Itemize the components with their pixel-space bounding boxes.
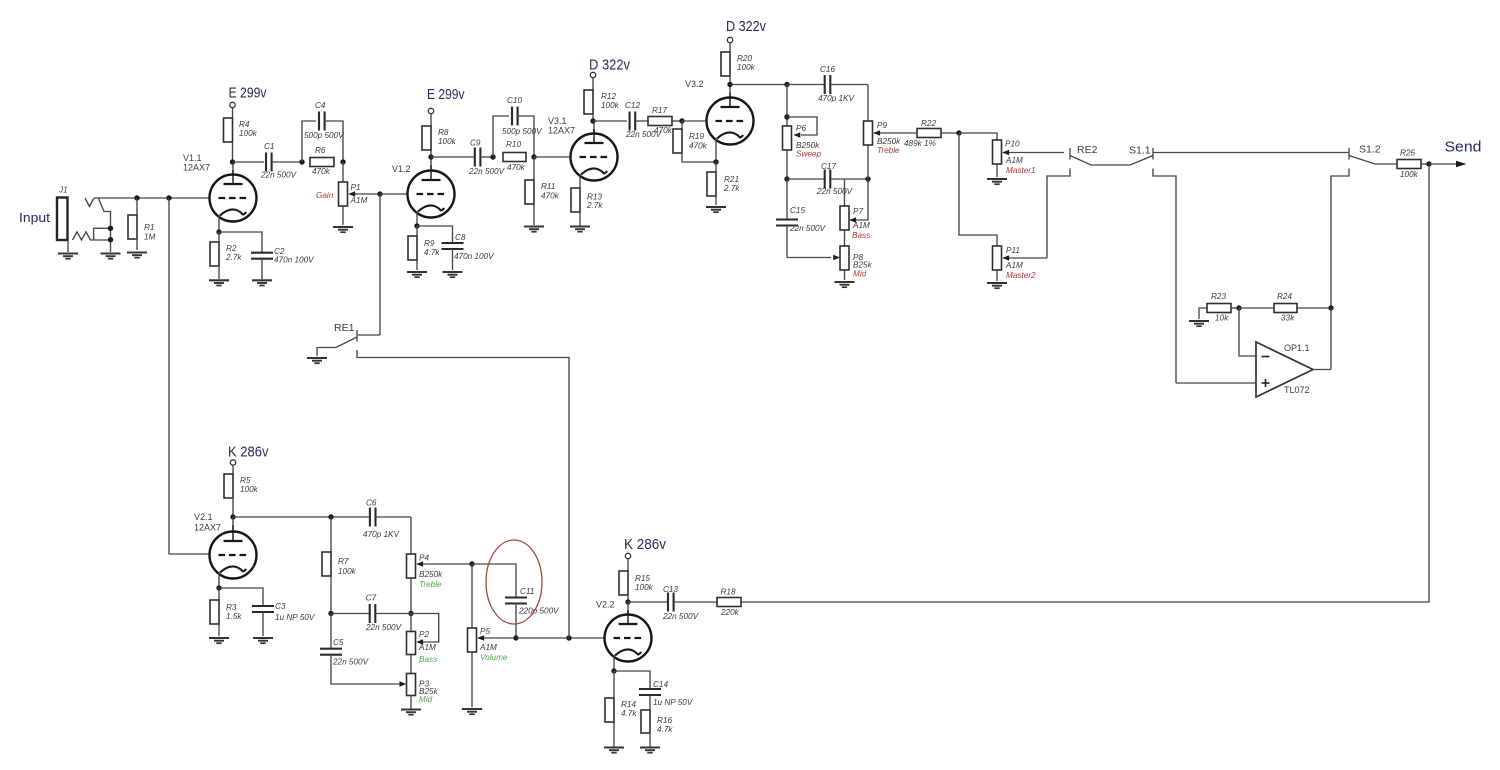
junction (to clean channel) bbox=[166, 195, 171, 200]
svg-text:2.7k: 2.7k bbox=[586, 201, 603, 210]
svg-text:22n 500V: 22n 500V bbox=[468, 167, 506, 176]
potentiometer P7 (Bass) bbox=[840, 179, 870, 246]
potentiometer P8 (Mid) bbox=[787, 246, 873, 280]
wire bbox=[959, 133, 997, 140]
svg-text:P11: P11 bbox=[1006, 246, 1020, 255]
svg-text:100k: 100k bbox=[438, 137, 457, 146]
junction (V1.2 cathode) bbox=[414, 223, 419, 228]
resistor R6 bbox=[310, 146, 334, 176]
ground (C8) bbox=[443, 272, 463, 277]
resistor R21 bbox=[707, 162, 740, 205]
svg-text:P9: P9 bbox=[877, 121, 887, 130]
terminal K 286v bbox=[228, 444, 269, 475]
potentiometer P6 (Sweep) bbox=[783, 85, 822, 180]
ground (R2) bbox=[209, 280, 229, 285]
svg-text:R20: R20 bbox=[737, 54, 752, 63]
resistor R18 bbox=[717, 588, 741, 618]
svg-text:C10: C10 bbox=[507, 96, 522, 105]
ground (jack switch) bbox=[101, 254, 121, 259]
svg-text:R7: R7 bbox=[338, 557, 349, 566]
svg-text:33k: 33k bbox=[1281, 314, 1295, 323]
ground (R16) bbox=[640, 748, 660, 753]
svg-text:A1M: A1M bbox=[852, 221, 870, 230]
svg-text:P5: P5 bbox=[480, 627, 490, 636]
svg-text:100k: 100k bbox=[240, 485, 259, 494]
svg-text:P6: P6 bbox=[796, 124, 806, 133]
terminal D 322v (2) bbox=[726, 18, 766, 52]
svg-text:B25k: B25k bbox=[853, 261, 873, 270]
svg-text:E 299v: E 299v bbox=[229, 85, 267, 102]
node label Input bbox=[19, 210, 50, 225]
wire (to V2.2 grid) bbox=[516, 637, 604, 639]
junction (V2.2 cathode) bbox=[611, 668, 616, 673]
junction (R10 out) bbox=[531, 154, 536, 159]
potentiometer P3 (Mid) bbox=[407, 674, 439, 710]
svg-text:100k: 100k bbox=[635, 583, 654, 592]
junction (C1/R6/C4) bbox=[299, 159, 304, 164]
potentiometer P2 (Bass) bbox=[407, 614, 438, 674]
svg-text:A1M: A1M bbox=[418, 643, 436, 652]
svg-text:RE1: RE1 bbox=[334, 322, 355, 334]
svg-text:C15: C15 bbox=[790, 206, 805, 215]
svg-text:C4: C4 bbox=[315, 101, 326, 110]
svg-text:4.7k: 4.7k bbox=[424, 248, 440, 257]
svg-text:1.5k: 1.5k bbox=[226, 612, 242, 621]
svg-text:22n 500V: 22n 500V bbox=[789, 224, 827, 233]
svg-text:C8: C8 bbox=[455, 233, 466, 242]
capacitor C2 bbox=[219, 232, 315, 279]
wire (to RE1) bbox=[379, 194, 381, 335]
svg-text:R21: R21 bbox=[724, 175, 739, 184]
svg-text:C6: C6 bbox=[366, 499, 377, 508]
svg-text:1u NP 50V: 1u NP 50V bbox=[653, 698, 694, 707]
svg-text:Volume: Volume bbox=[480, 653, 508, 662]
svg-text:12AX7: 12AX7 bbox=[194, 523, 221, 533]
svg-text:C12: C12 bbox=[625, 101, 640, 110]
capacitor C7 bbox=[331, 594, 411, 633]
resistor R19 bbox=[673, 121, 716, 162]
svg-text:4.7k: 4.7k bbox=[621, 709, 637, 718]
junction (Send node) bbox=[1426, 161, 1431, 166]
svg-text:R11: R11 bbox=[541, 182, 555, 191]
svg-text:C14: C14 bbox=[653, 680, 668, 689]
capacitor C13 bbox=[628, 585, 717, 621]
svg-text:1u NP 50V: 1u NP 50V bbox=[275, 613, 316, 622]
svg-text:C9: C9 bbox=[470, 139, 481, 148]
capacitor C3 bbox=[219, 588, 316, 636]
svg-text:470k: 470k bbox=[689, 142, 708, 151]
junction (V1.2 plate) bbox=[428, 154, 433, 159]
svg-text:E 299v: E 299v bbox=[427, 86, 465, 103]
switch S1.2 bbox=[1349, 144, 1397, 165]
junction (C16/P6) bbox=[784, 82, 789, 87]
svg-text:C13: C13 bbox=[663, 585, 678, 594]
resistor R22 bbox=[904, 119, 959, 148]
junction (C17/P9/P7) bbox=[865, 176, 870, 181]
ground (R13) bbox=[570, 227, 590, 232]
terminal D 322v bbox=[589, 57, 630, 91]
svg-text:100k: 100k bbox=[338, 567, 357, 576]
junction (R1 tap) bbox=[134, 195, 139, 200]
resistor R5 bbox=[224, 474, 259, 517]
wire bbox=[233, 161, 265, 163]
svg-text:Bass: Bass bbox=[852, 231, 870, 240]
tube V3.1 (12AX7) bbox=[548, 116, 618, 181]
svg-text:4.7k: 4.7k bbox=[657, 725, 673, 734]
switch S1.1 bbox=[1129, 145, 1349, 160]
svg-text:V1.1: V1.1 bbox=[183, 153, 202, 163]
svg-text:10k: 10k bbox=[1215, 314, 1229, 323]
svg-text:R23: R23 bbox=[1211, 292, 1226, 301]
svg-text:22n 500V: 22n 500V bbox=[332, 658, 370, 667]
junction (V1.1 cathode) bbox=[216, 229, 221, 234]
junction (V1.1 plate) bbox=[230, 159, 235, 164]
svg-text:100k: 100k bbox=[737, 63, 756, 72]
svg-text:Treble: Treble bbox=[419, 580, 442, 589]
svg-text:K 286v: K 286v bbox=[624, 536, 666, 553]
svg-text:R6: R6 bbox=[315, 146, 326, 155]
output Send bbox=[1429, 139, 1482, 168]
junction (P4/C7/P2) bbox=[408, 611, 413, 616]
resistor R4 bbox=[224, 118, 258, 162]
capacitor C11 bbox=[472, 564, 560, 638]
svg-text:C11: C11 bbox=[520, 587, 534, 596]
resistor R11 bbox=[525, 157, 560, 225]
resistor R8 bbox=[422, 126, 457, 157]
svg-text:22n 500V: 22n 500V bbox=[816, 187, 854, 196]
svg-text:R2: R2 bbox=[226, 244, 237, 253]
capacitor C5 bbox=[320, 614, 406, 687]
svg-text:D 322v: D 322v bbox=[726, 18, 766, 35]
svg-text:K 286v: K 286v bbox=[228, 444, 269, 461]
resistor R24 bbox=[1239, 292, 1331, 323]
junction (V3.1 plate) bbox=[590, 118, 595, 123]
svg-text:C17: C17 bbox=[821, 162, 836, 171]
relay contact RE1 bbox=[317, 322, 380, 356]
wire (P2 wiper) bbox=[411, 614, 439, 645]
resistor R25 bbox=[1397, 149, 1429, 180]
svg-text:R24: R24 bbox=[1277, 292, 1292, 301]
svg-text:470n 100V: 470n 100V bbox=[454, 252, 495, 261]
svg-text:R3: R3 bbox=[226, 603, 237, 612]
svg-text:Gain: Gain bbox=[316, 191, 334, 200]
svg-text:470k: 470k bbox=[312, 167, 331, 176]
svg-text:P10: P10 bbox=[1005, 140, 1020, 149]
svg-text:22n 500V: 22n 500V bbox=[260, 171, 298, 180]
ground (P11) bbox=[987, 283, 1007, 288]
resistor R9 bbox=[408, 226, 440, 270]
junction (V2.1 cathode) bbox=[216, 585, 221, 590]
svg-text:Treble: Treble bbox=[877, 146, 900, 155]
ground (P5) bbox=[462, 709, 482, 714]
wire (plate rail) bbox=[730, 84, 787, 86]
svg-text:C16: C16 bbox=[820, 65, 835, 74]
svg-text:470n 100V: 470n 100V bbox=[274, 256, 315, 265]
svg-text:A1M: A1M bbox=[1005, 261, 1023, 270]
capacitor C10 bbox=[493, 96, 543, 157]
resistor R20 bbox=[721, 52, 756, 85]
svg-text:500p 500V: 500p 500V bbox=[502, 127, 543, 136]
capacitor C6 bbox=[363, 499, 411, 540]
svg-text:S1.1: S1.1 bbox=[1129, 145, 1151, 157]
svg-text:Send: Send bbox=[1445, 139, 1482, 156]
ground (P8) bbox=[835, 282, 855, 287]
svg-text:Bass: Bass bbox=[419, 655, 437, 664]
junction (R22 out) bbox=[956, 130, 961, 135]
wire (to V3.2 grid) bbox=[682, 120, 706, 122]
potentiometer P11 (Master2) bbox=[993, 246, 1048, 281]
junction (C11/P5 wiper) bbox=[513, 635, 518, 640]
tube V1.2 (12AX7) bbox=[392, 157, 455, 226]
resistor R17 bbox=[648, 106, 682, 135]
svg-text:A1M: A1M bbox=[479, 643, 497, 652]
junction (feedback node) bbox=[1328, 305, 1333, 310]
potentiometer P5 (Volume) bbox=[468, 564, 517, 707]
wire (R18 to Send) bbox=[741, 167, 1429, 602]
junction (inverting node) bbox=[1236, 305, 1241, 310]
ground (R21) bbox=[706, 207, 726, 212]
ground (P1) bbox=[333, 227, 353, 232]
ground (R9) bbox=[407, 272, 427, 277]
svg-text:R9: R9 bbox=[424, 239, 435, 248]
svg-text:S1.2: S1.2 bbox=[1359, 144, 1381, 156]
svg-text:R14: R14 bbox=[621, 700, 636, 709]
svg-text:2.7k: 2.7k bbox=[723, 184, 740, 193]
resistor R1 bbox=[128, 198, 156, 250]
svg-text:470k: 470k bbox=[541, 192, 560, 201]
capacitor C4 bbox=[302, 101, 345, 162]
capacitor C9 bbox=[468, 139, 506, 177]
capacitor C1 bbox=[260, 142, 302, 180]
node (jack switch contacts) bbox=[108, 226, 113, 243]
svg-text:C3: C3 bbox=[275, 602, 286, 611]
junction (P1 wiper node) bbox=[377, 191, 382, 196]
capacitor C12 bbox=[625, 101, 663, 139]
svg-text:B250k: B250k bbox=[419, 570, 443, 579]
svg-text:470p 1KV: 470p 1KV bbox=[818, 94, 856, 103]
svg-text:P4: P4 bbox=[419, 554, 429, 563]
ground (R23) bbox=[1189, 321, 1209, 326]
wire (P11 wiper to RE2 throw) bbox=[1047, 169, 1070, 259]
svg-text:100k: 100k bbox=[239, 129, 258, 138]
resistor R14 bbox=[605, 671, 637, 747]
resistor R3 bbox=[210, 588, 242, 636]
ground (R14) bbox=[604, 748, 624, 753]
resistor R10 bbox=[503, 140, 526, 172]
svg-text:C5: C5 bbox=[333, 638, 344, 647]
resistor R12 bbox=[584, 90, 620, 121]
potentiometer P10 (Master1) bbox=[993, 140, 1065, 178]
svg-text:R19: R19 bbox=[689, 132, 704, 141]
junction (P4 wiper node) bbox=[469, 561, 474, 566]
wire (input bus) bbox=[94, 197, 210, 199]
wire (to V2.1 grid) bbox=[169, 198, 210, 554]
junction (R6 out) bbox=[340, 159, 345, 164]
wire (non-inverting input) bbox=[1176, 382, 1256, 384]
connector J1 (input jack) bbox=[57, 186, 111, 253]
potentiometer P1 (Gain) bbox=[316, 162, 380, 225]
svg-text:R16: R16 bbox=[657, 716, 672, 725]
potentiometer P9 (Treble) bbox=[864, 121, 918, 179]
svg-text:R17: R17 bbox=[652, 106, 667, 115]
svg-text:R12: R12 bbox=[601, 92, 616, 101]
junction (R7 tap) bbox=[328, 514, 333, 519]
wire (to V3.1 grid) bbox=[534, 156, 570, 158]
terminal K 286v (2) bbox=[624, 536, 666, 571]
svg-text:J1: J1 bbox=[58, 186, 68, 195]
wire bbox=[593, 120, 627, 122]
junction (R7/C7/C5) bbox=[328, 611, 333, 616]
svg-text:22n 500V: 22n 500V bbox=[662, 612, 700, 621]
svg-text:R4: R4 bbox=[239, 120, 250, 129]
wire (RE1 throw to V2.2 grid) bbox=[357, 350, 569, 638]
svg-text:470k: 470k bbox=[654, 126, 673, 135]
terminal E 299v (2) bbox=[427, 86, 465, 126]
tube V2.1 (12AX7) bbox=[194, 512, 257, 588]
svg-text:Master1: Master1 bbox=[1006, 166, 1036, 175]
svg-text:R8: R8 bbox=[438, 128, 449, 137]
junction (RE1 line) bbox=[566, 635, 571, 640]
svg-text:489k 1%: 489k 1% bbox=[904, 139, 936, 148]
wire bbox=[410, 517, 412, 554]
wire (S1.2 throw to feedback) bbox=[1331, 169, 1349, 309]
svg-text:P2: P2 bbox=[419, 630, 429, 639]
svg-text:R15: R15 bbox=[635, 574, 650, 583]
svg-text:100k: 100k bbox=[601, 101, 620, 110]
ground (P10) bbox=[987, 179, 1007, 184]
op-amp OP1.1 (TL072) bbox=[1256, 308, 1331, 397]
ground (C2) bbox=[252, 280, 272, 285]
svg-text:V3.2: V3.2 bbox=[685, 79, 704, 89]
junction (C9 out) bbox=[490, 154, 495, 159]
wire (S1.1 throw to op-amp +) bbox=[1153, 169, 1176, 384]
svg-text:12AX7: 12AX7 bbox=[183, 163, 210, 173]
capacitor C15 bbox=[776, 179, 827, 258]
svg-text:12AX7: 12AX7 bbox=[548, 126, 575, 136]
highlight ellipse (C11) bbox=[486, 540, 542, 624]
tube V1.1 (12AX7) bbox=[183, 153, 257, 232]
svg-text:OP1.1: OP1.1 bbox=[1284, 343, 1310, 353]
resistor R16 bbox=[641, 695, 673, 747]
ground (P3) bbox=[401, 710, 421, 715]
svg-text:Sweep: Sweep bbox=[796, 150, 821, 159]
svg-text:A1M: A1M bbox=[350, 196, 368, 205]
svg-text:V2.1: V2.1 bbox=[194, 512, 213, 522]
svg-text:1M: 1M bbox=[144, 233, 156, 242]
svg-text:100k: 100k bbox=[1400, 170, 1419, 179]
svg-text:TL072: TL072 bbox=[1284, 385, 1310, 395]
svg-text:V3.1: V3.1 bbox=[548, 116, 567, 126]
capacitor C8 bbox=[417, 226, 495, 270]
svg-text:R10: R10 bbox=[506, 140, 521, 149]
tube V3.2 (12AX7) bbox=[685, 79, 754, 162]
wire (inverting input) bbox=[1239, 308, 1256, 356]
wire (plate rail clean) bbox=[233, 516, 369, 518]
resistor R2 bbox=[210, 232, 242, 279]
wire bbox=[431, 156, 474, 158]
ground (R11) bbox=[524, 227, 544, 232]
svg-text:470k: 470k bbox=[507, 163, 526, 172]
junction (C17/P6/C15) bbox=[784, 176, 789, 181]
svg-text:R1: R1 bbox=[144, 223, 154, 232]
svg-text:P1: P1 bbox=[351, 183, 361, 192]
junction (V3.2 plate) bbox=[727, 82, 732, 87]
wire (to V1.2 grid) bbox=[380, 193, 407, 195]
svg-text:220k: 220k bbox=[720, 608, 740, 617]
junction (V3.2 cathode) bbox=[713, 159, 718, 164]
svg-text:R5: R5 bbox=[240, 476, 251, 485]
svg-text:R18: R18 bbox=[721, 588, 736, 597]
resistor R7 bbox=[322, 517, 357, 614]
svg-text:22n 500V: 22n 500V bbox=[365, 623, 403, 632]
wire (to P9 top) bbox=[867, 85, 869, 122]
junction (V2.2 plate) bbox=[625, 599, 630, 604]
svg-text:Mid: Mid bbox=[853, 270, 867, 279]
svg-text:P7: P7 bbox=[853, 207, 863, 216]
ground (J1 sleeve) bbox=[58, 254, 78, 259]
svg-text:R22: R22 bbox=[921, 119, 936, 128]
svg-text:500p 500V: 500p 500V bbox=[304, 131, 345, 140]
ground (R3) bbox=[209, 638, 229, 643]
junction (V2.1 plate) bbox=[230, 514, 235, 519]
svg-text:C1: C1 bbox=[264, 142, 274, 151]
svg-text:V1.2: V1.2 bbox=[392, 164, 411, 174]
svg-text:2.7k: 2.7k bbox=[225, 253, 242, 262]
capacitor C17 bbox=[787, 162, 868, 196]
svg-text:C7: C7 bbox=[366, 594, 377, 603]
svg-text:D 322v: D 322v bbox=[589, 57, 630, 74]
svg-text:V2.2: V2.2 bbox=[596, 600, 615, 610]
ground (RE1) bbox=[307, 358, 327, 363]
svg-text:A1M: A1M bbox=[1005, 156, 1023, 165]
svg-text:B250k: B250k bbox=[877, 137, 901, 146]
svg-text:RE2: RE2 bbox=[1077, 144, 1098, 156]
potentiometer P4 (Treble) bbox=[407, 554, 473, 614]
resistor R15 bbox=[619, 571, 654, 602]
capacitor C16 bbox=[787, 65, 868, 103]
resistor R13 bbox=[571, 174, 603, 226]
svg-text:Input: Input bbox=[19, 210, 50, 225]
relay contact RE2 bbox=[1070, 144, 1153, 165]
wire bbox=[959, 133, 997, 246]
capacitor C14 bbox=[614, 671, 694, 707]
svg-text:470p 1KV: 470p 1KV bbox=[363, 530, 401, 539]
ground (R1) bbox=[127, 253, 147, 258]
svg-text:Master2: Master2 bbox=[1006, 271, 1036, 280]
svg-text:Mid: Mid bbox=[419, 695, 433, 704]
svg-text:220p 500V: 220p 500V bbox=[518, 607, 560, 616]
tube V2.2 (12AX7) bbox=[596, 600, 652, 672]
ground (C3) bbox=[253, 638, 273, 643]
resistor R23 bbox=[1199, 292, 1239, 323]
junction (R17/R19/grid) bbox=[679, 118, 684, 123]
svg-text:R25: R25 bbox=[1400, 149, 1415, 158]
terminal E 299v bbox=[229, 85, 267, 119]
